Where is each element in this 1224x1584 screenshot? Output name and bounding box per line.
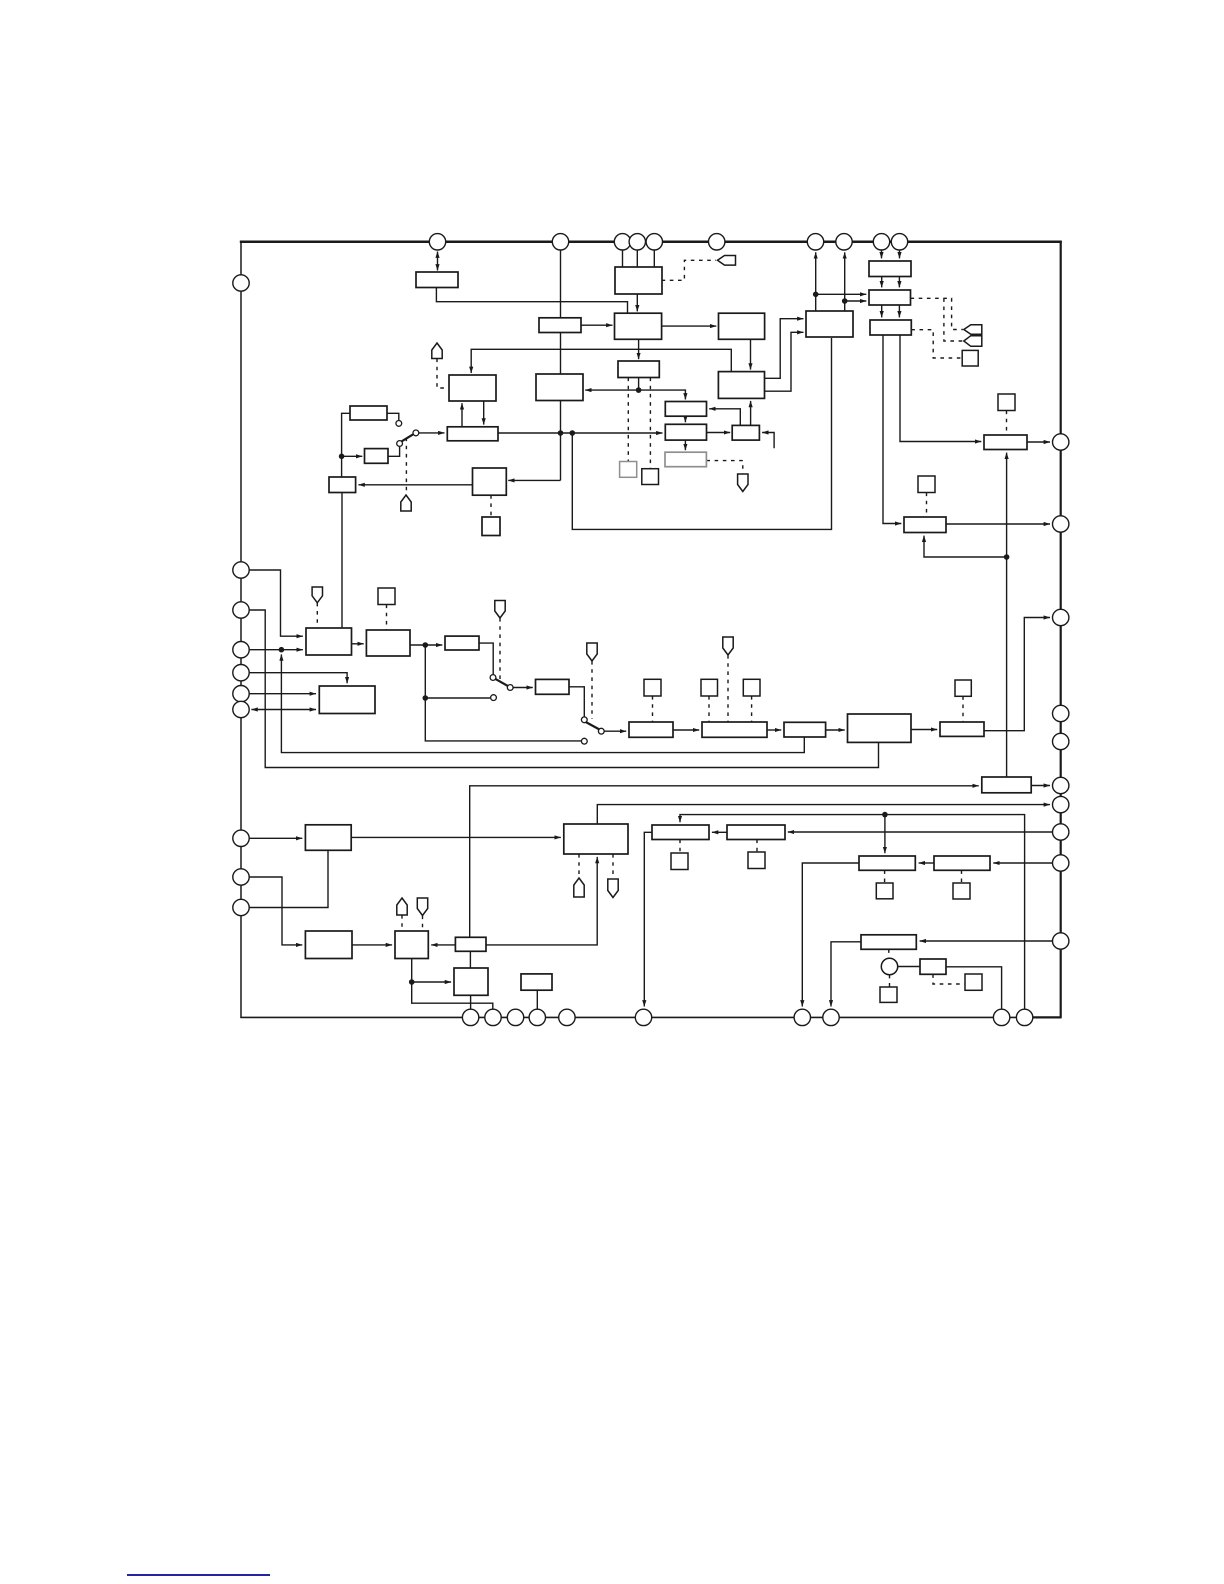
wire block U to block V bbox=[826, 729, 845, 731]
switch SW2 lever bbox=[586, 722, 600, 730]
node X5 junction bbox=[842, 298, 848, 304]
block Y bbox=[305, 825, 351, 851]
wire pin R9 to block AH right bbox=[993, 862, 1052, 864]
pin T9 (top) bbox=[873, 234, 889, 250]
wire block X top to block J bottom bbox=[1006, 453, 1008, 777]
dashed lead block AD to tag P11 bbox=[612, 854, 614, 879]
pin T10 (top) bbox=[891, 234, 907, 250]
square SM bbox=[378, 588, 395, 605]
block P bbox=[319, 686, 375, 714]
wire node X2 to block B right bbox=[585, 389, 638, 391]
wire block R3 to block L top bbox=[341, 493, 343, 629]
wire block AB to block AD bottom bbox=[486, 857, 597, 945]
dashed lead tag P7 to block T bbox=[727, 655, 729, 722]
tag T3 (signal label) bbox=[964, 336, 982, 347]
wire node X10 to block AC left bbox=[412, 981, 451, 983]
pin B2 (bottom) bbox=[485, 1009, 501, 1025]
wire block U bottom to node X7 bbox=[281, 654, 804, 752]
wire block B0 to block B top bbox=[560, 333, 562, 375]
wire pin5 to block TOP1 bbox=[653, 250, 655, 267]
dashed lead square SW to block W bbox=[962, 696, 964, 721]
wire node X3 to block R2 bbox=[342, 455, 363, 457]
dashed lead square SS to block S bbox=[652, 696, 654, 722]
tag T1 (signal label) bbox=[718, 256, 736, 266]
block D bbox=[665, 424, 706, 440]
block AI bbox=[861, 935, 916, 950]
block K bbox=[904, 517, 946, 533]
dashed lead block AH to square SAH bbox=[961, 870, 963, 882]
pin T1 (top) bbox=[429, 234, 445, 250]
wire block R2 to switch SW1 contact b bbox=[388, 447, 400, 457]
dashed control lead tag P5 to switch SW3 bbox=[499, 618, 501, 681]
square SAL bbox=[880, 987, 897, 1002]
pin R2 (right) bbox=[1053, 516, 1069, 532]
block G3 bbox=[473, 468, 507, 495]
block H bbox=[806, 311, 853, 337]
wire node X2 to block C top bbox=[639, 390, 686, 399]
pin T8 (top) bbox=[836, 234, 852, 250]
wire pin L8 to block Y bbox=[249, 837, 302, 839]
tag P3 (test point) bbox=[738, 474, 748, 492]
tag P1 (test point) bbox=[432, 343, 442, 359]
pin L2 (left) bbox=[233, 562, 249, 578]
pin L1 (left) bbox=[233, 275, 249, 291]
wire block AC to pin B1 bbox=[470, 995, 472, 1009]
wire block M to block N bbox=[410, 644, 442, 646]
wire block T2a to block T2b (left) bbox=[881, 277, 883, 288]
wire block C to block D bbox=[684, 416, 686, 422]
block B bbox=[536, 374, 583, 401]
wire block AJ to pin B9 bbox=[946, 967, 1002, 1009]
pin B5 (bottom) bbox=[559, 1009, 575, 1025]
tag P10 (test point) bbox=[574, 878, 584, 897]
wire switch SW1 common to block G2 bbox=[419, 432, 445, 434]
wire pin3 to block TOP1 bbox=[622, 250, 624, 267]
wire block T2b to block T2c (right) bbox=[898, 305, 900, 317]
wire block D to block I bbox=[684, 440, 686, 450]
dashed lead block AF to square SAF bbox=[756, 840, 758, 852]
dashed control lead switch SW1 to tag P2 bbox=[405, 438, 407, 495]
block C bbox=[665, 402, 706, 417]
dashed lead block C2 to square SA bbox=[627, 378, 629, 462]
node X3 junction bbox=[339, 454, 345, 460]
pin R4 (right) bbox=[1053, 705, 1069, 721]
switch SW1 common bbox=[413, 430, 419, 436]
switch SW3 contact a bbox=[490, 675, 496, 681]
square SAG bbox=[876, 883, 893, 899]
block G1 bbox=[449, 375, 496, 401]
switch SW1 contact b bbox=[397, 441, 403, 447]
dashed lead block T2b to tag T2 bbox=[911, 298, 963, 329]
block F2 bbox=[718, 372, 764, 399]
IC outer boundary bottom-right corner segment bbox=[1030, 1016, 1062, 1018]
block R bbox=[536, 679, 570, 694]
switch SW3 contact b bbox=[491, 695, 497, 701]
wire pin L3 to block V bottom bbox=[249, 610, 878, 768]
switch SW3 common bbox=[507, 685, 513, 691]
dashed lead square ST2 to block T bbox=[751, 696, 753, 722]
wire block AG to pin B7 bbox=[802, 863, 859, 1007]
dashed lead block C2 to square SB bbox=[649, 378, 651, 469]
wire block A output to block C1 top bbox=[436, 288, 627, 314]
pin B6 (bottom) bbox=[635, 1009, 651, 1025]
pin T6 (top) bbox=[709, 234, 725, 250]
square SAH bbox=[953, 883, 970, 899]
block AF bbox=[727, 825, 785, 840]
node X4 junction bbox=[813, 292, 819, 298]
wire net V433 to block H bottom bbox=[572, 338, 831, 529]
pin T5 (top) bbox=[646, 234, 662, 250]
node X8a junction bbox=[423, 642, 429, 648]
wire block AB to block AC bbox=[469, 951, 471, 968]
dashed lead block AI to osc AL bbox=[888, 949, 890, 958]
pin R8 (right) bbox=[1053, 824, 1069, 840]
wire block T2c to block J left bbox=[900, 335, 981, 442]
dashed lead block I to tag P3 bbox=[706, 461, 742, 474]
block M bbox=[366, 630, 410, 656]
node X6 junction bbox=[1004, 554, 1010, 560]
block T2b bbox=[869, 290, 911, 305]
pin L6 (left) bbox=[233, 686, 249, 702]
wire block Y to block AD left bbox=[351, 836, 561, 838]
IC outer boundary top edge bbox=[240, 241, 1062, 244]
wire block R1 to switch SW1 contact a bbox=[387, 413, 399, 420]
block E bbox=[732, 425, 759, 440]
wire block C1 to block F1 left bbox=[662, 325, 717, 327]
node X8b junction bbox=[423, 695, 429, 701]
wire block S to block T bbox=[673, 729, 699, 731]
IC outer boundary bottom edge bbox=[240, 1016, 1061, 1018]
block AE bbox=[652, 825, 709, 840]
square SAE bbox=[671, 853, 688, 870]
dashed lead tag P1 to block G1 left bbox=[437, 359, 447, 389]
wire node X4 to block T2b left (upper) bbox=[816, 293, 867, 295]
wire pin L7 to block P (bidirectional) bbox=[251, 709, 316, 711]
block V bbox=[848, 714, 912, 742]
wire node X5 to block T2b left (lower) bbox=[845, 300, 867, 302]
wire node X9 to block AG top bbox=[884, 815, 886, 854]
dashed lead square ST1 to block T bbox=[708, 696, 710, 722]
block AB bbox=[455, 937, 486, 951]
pin B10 (bottom) bbox=[1016, 1009, 1032, 1025]
dashed lead block AD to tag P10 bbox=[578, 854, 580, 878]
block AD bbox=[564, 824, 628, 854]
pin L7 (left) bbox=[233, 701, 249, 717]
wire pin L2 to block L left (upper) bbox=[249, 570, 303, 636]
wire pin2 vertical through inline block B0 bbox=[560, 250, 562, 318]
wire block G3 to block R3 right bbox=[358, 484, 472, 486]
block AA bbox=[395, 931, 428, 959]
wire block R to switch SW2 contact a bbox=[569, 687, 584, 717]
square SJ bbox=[998, 394, 1015, 411]
dashed lead tag P4 to block L top bbox=[316, 603, 318, 628]
wire node X10 to pin B2 bbox=[412, 982, 493, 1009]
wire block T2c to block K left bbox=[883, 335, 901, 524]
pin L4 (left) bbox=[233, 642, 249, 658]
pin T3 (top) bbox=[614, 234, 630, 250]
footer link underline bbox=[127, 1574, 270, 1576]
wire block F2 to block H left (upper) bbox=[765, 319, 804, 379]
square SG3 bbox=[482, 517, 500, 536]
wire node X8 to switch SW2 contact b bbox=[425, 698, 581, 741]
pin L9 (left) bbox=[233, 869, 249, 885]
dashed lead block G3 to square SG3 bbox=[490, 495, 492, 516]
wire switch SW2 common to block S bbox=[604, 730, 626, 732]
block C2 bbox=[618, 361, 659, 378]
block T2c bbox=[870, 320, 911, 335]
square SAJ bbox=[965, 974, 982, 990]
dashed lead tag P8 to block AA bbox=[401, 915, 403, 931]
square ST1 bbox=[701, 679, 718, 696]
wire pin10 to block T2a bbox=[899, 250, 901, 258]
wire pin9 to block T2a bbox=[881, 250, 883, 258]
block U bbox=[784, 722, 826, 737]
wire block AA bottom to node X10 bbox=[411, 959, 413, 983]
pin R9 (right) bbox=[1053, 855, 1069, 871]
node X9 junction bbox=[882, 812, 888, 818]
wire pin L5 to block P top bbox=[249, 673, 347, 684]
IC outer boundary left edge bbox=[240, 241, 242, 1018]
block B0 (inline) bbox=[539, 318, 581, 333]
dashed lead square SK to block K bbox=[926, 493, 928, 517]
wire block AF to block AE bbox=[712, 831, 727, 833]
wire block H top to pin7 bbox=[815, 252, 817, 311]
wire block E top to block F2 bottom bbox=[750, 401, 752, 426]
pin R3 (right) bbox=[1053, 609, 1069, 625]
tag P6 (test point) bbox=[587, 643, 597, 661]
block R2 bbox=[365, 449, 389, 464]
block C1 bbox=[615, 313, 662, 339]
wire pin R8 to block AF right bbox=[788, 831, 1053, 833]
wire block B0 to block C1 left bbox=[581, 324, 613, 326]
square SAF bbox=[748, 852, 765, 869]
pin R7 (right) bbox=[1053, 796, 1069, 812]
block I bbox=[665, 452, 706, 467]
block AG bbox=[859, 856, 915, 870]
tag P11 (test point) bbox=[608, 879, 618, 898]
wire block D to block E bbox=[707, 432, 731, 434]
block R1 bbox=[350, 406, 387, 420]
block Z bbox=[305, 931, 352, 959]
wire pin L6 to block P left bbox=[249, 693, 316, 695]
wire pin4 to block TOP1 bbox=[636, 250, 638, 267]
tag P4 (test point) bbox=[312, 587, 322, 603]
dashed lead block AJ to square SAJ bbox=[933, 974, 965, 984]
dashed lead square SM to block M top bbox=[386, 605, 388, 630]
block TOP1 bbox=[615, 267, 662, 294]
square ST2 bbox=[743, 679, 760, 696]
node X1 junction bbox=[558, 430, 564, 436]
pin B9 (bottom) bbox=[993, 1009, 1009, 1025]
wire block T2a to block T2b (right) bbox=[898, 277, 900, 288]
wire block AI to pin B8 bbox=[831, 942, 861, 1007]
dashed lead square SJ to block J bbox=[1006, 411, 1008, 435]
wire block T2b to block T2c (left) bbox=[881, 305, 883, 317]
wire pin L9 to block Z bbox=[249, 877, 302, 945]
block A bbox=[416, 272, 458, 288]
block N bbox=[445, 636, 479, 650]
block T bbox=[702, 722, 767, 737]
wire osc AL to block AJ bbox=[898, 966, 920, 968]
wire block Y bottom to pin L10 bbox=[249, 850, 328, 907]
osc AL (resonator circle) bbox=[881, 958, 897, 974]
wire block R1 left to node X3 bbox=[342, 413, 350, 456]
switch SW3 lever bbox=[495, 679, 508, 686]
block W bbox=[940, 722, 984, 736]
wire block G2 to block G1 (up) bbox=[461, 403, 463, 427]
block F1 bbox=[719, 313, 765, 339]
wire block X to pin R6 bbox=[1031, 785, 1050, 787]
wire node X3 to block R3 top bbox=[341, 456, 343, 477]
block J bbox=[984, 435, 1027, 450]
pin L5 (left) bbox=[233, 665, 249, 681]
tag P2 (test point) bbox=[401, 495, 411, 511]
node V433 junction bbox=[570, 430, 576, 436]
dashed lead block AG to square SAG bbox=[884, 870, 886, 882]
tag T2 (signal label) bbox=[964, 325, 982, 335]
pin T4 (top) bbox=[629, 234, 645, 250]
block L bbox=[306, 628, 352, 655]
pin R5 (right) bbox=[1053, 733, 1069, 749]
dashed lead block TOP1 to tag T1 bbox=[662, 260, 716, 280]
square SA (grey) bbox=[620, 462, 637, 478]
block AH bbox=[934, 856, 990, 870]
wire node X1 to block G3 right bbox=[508, 479, 560, 481]
block G2 bbox=[447, 427, 498, 441]
wire block G1 to block G2 (down) bbox=[483, 401, 485, 425]
node X2 junction bbox=[636, 387, 642, 393]
switch SW2 contact b bbox=[581, 738, 587, 744]
wire block L to block M bbox=[352, 643, 364, 645]
wire block Z to block AA bbox=[352, 944, 392, 946]
wire pin R10 to block AI right bbox=[920, 940, 1053, 942]
wire block W to pin R3 bbox=[984, 618, 1050, 731]
wire block F1 to block F2 bbox=[750, 339, 752, 369]
pin B7 (bottom) bbox=[794, 1009, 810, 1025]
wire pin B10 to block AE top bbox=[680, 815, 1025, 1009]
square SK bbox=[918, 476, 935, 493]
switch SW1 lever bbox=[402, 434, 414, 442]
switch SW2 common bbox=[598, 728, 604, 734]
tag P5 (test point) bbox=[495, 601, 505, 619]
dashed lead block T2b to tag T3 bbox=[944, 298, 963, 341]
block S bbox=[629, 722, 673, 737]
dashed control lead tag P6 to switch SW2 bbox=[591, 661, 593, 719]
node X10 junction bbox=[409, 979, 415, 985]
wire block B bottom to node X1 bbox=[560, 401, 562, 481]
wire node X6 to block K bottom bbox=[924, 536, 1007, 557]
dashed lead tag P9 to block AA bbox=[422, 916, 424, 931]
pin B3 (bottom) bbox=[507, 1009, 523, 1025]
block AJ bbox=[920, 959, 946, 974]
pin B1 (bottom) bbox=[462, 1009, 478, 1025]
block AK bbox=[521, 974, 552, 990]
wire block AH to block AG bbox=[919, 862, 934, 864]
wire block C2 bottom to node X2 bbox=[638, 378, 640, 391]
square SB bbox=[642, 469, 659, 485]
pin T7 (top) bbox=[807, 234, 823, 250]
dashed lead block T2c to square S1 bbox=[911, 330, 961, 358]
wire block E top to block C right bbox=[709, 409, 740, 426]
wire node X8 to switch SW3 contact b bbox=[425, 645, 490, 698]
wire block C1 to block C2 bbox=[638, 339, 640, 359]
pin T2 (top) bbox=[552, 234, 568, 250]
block AC bbox=[454, 968, 488, 995]
wire pin1 to block A (bidirectional) bbox=[437, 252, 439, 271]
pin B8 (bottom) bbox=[823, 1009, 839, 1025]
wire block AK to pin B4 bbox=[536, 990, 538, 1009]
wire block G2 to block D (net V433) bbox=[498, 432, 663, 434]
square S1 bbox=[962, 350, 978, 366]
wire block K to pin R2 bbox=[946, 523, 1050, 525]
dashed lead osc AL to square SAL bbox=[889, 975, 891, 987]
node X7 junction bbox=[279, 647, 285, 653]
IC outer boundary right edge bbox=[1060, 241, 1062, 1018]
pin B4 (bottom) bbox=[529, 1009, 545, 1025]
wire block J to pin R1 bbox=[1027, 441, 1050, 443]
tag P8 (test point) bbox=[397, 898, 407, 915]
wire block N to switch SW3 contact a bbox=[479, 643, 493, 674]
switch SW1 contact a bbox=[396, 421, 402, 427]
wire net Y349 to block G1 top bbox=[471, 349, 731, 373]
pin R10 (right) bbox=[1053, 933, 1069, 949]
switch SW2 contact a bbox=[581, 717, 587, 723]
wire block V to block W bbox=[911, 729, 937, 731]
block T2a bbox=[869, 261, 911, 277]
pin L8 (left) bbox=[233, 830, 249, 846]
square SS bbox=[644, 679, 661, 696]
pin R1 (right) bbox=[1053, 434, 1069, 450]
wire block AE to pin B6 bbox=[644, 832, 652, 1006]
wire block T to block U bbox=[767, 729, 781, 731]
pin L10 (left) bbox=[233, 899, 249, 915]
block X bbox=[982, 777, 1031, 793]
tag P7 (test point) bbox=[723, 637, 733, 655]
square SW bbox=[955, 680, 971, 696]
wire block H top to pin8 bbox=[844, 252, 846, 311]
wire block TOP1 to block C1 bbox=[636, 294, 638, 311]
pin R6 (right) bbox=[1053, 777, 1069, 793]
dashed lead block AE to square SAE bbox=[679, 840, 681, 853]
block R3 bbox=[329, 477, 356, 493]
wire net V786 block AB top to block X left bbox=[470, 786, 979, 938]
wire block F2 to block H left (lower) bbox=[765, 332, 804, 391]
pin L3 (left) bbox=[233, 602, 249, 618]
stub wire into block E right bbox=[762, 433, 774, 449]
wire block AB to block AA right bbox=[431, 944, 455, 946]
wire switch SW3 common to block R bbox=[513, 687, 533, 689]
tag P9 (test point) bbox=[417, 898, 427, 916]
wire pin L4 to block L left (lower) bbox=[249, 649, 303, 651]
wire block AD top to pin R7 bbox=[597, 805, 1050, 824]
